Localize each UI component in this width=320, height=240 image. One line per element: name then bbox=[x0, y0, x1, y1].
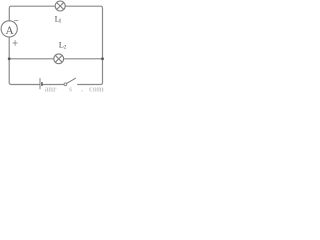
svg-text:L1: L1 bbox=[55, 14, 62, 25]
svg-text:L2: L2 bbox=[59, 40, 67, 51]
svg-text:.: . bbox=[81, 85, 83, 93]
svg-text:s: s bbox=[69, 84, 72, 93]
svg-text:com: com bbox=[89, 85, 104, 93]
svg-text:anr: anr bbox=[45, 85, 57, 93]
svg-text:A: A bbox=[6, 25, 15, 37]
